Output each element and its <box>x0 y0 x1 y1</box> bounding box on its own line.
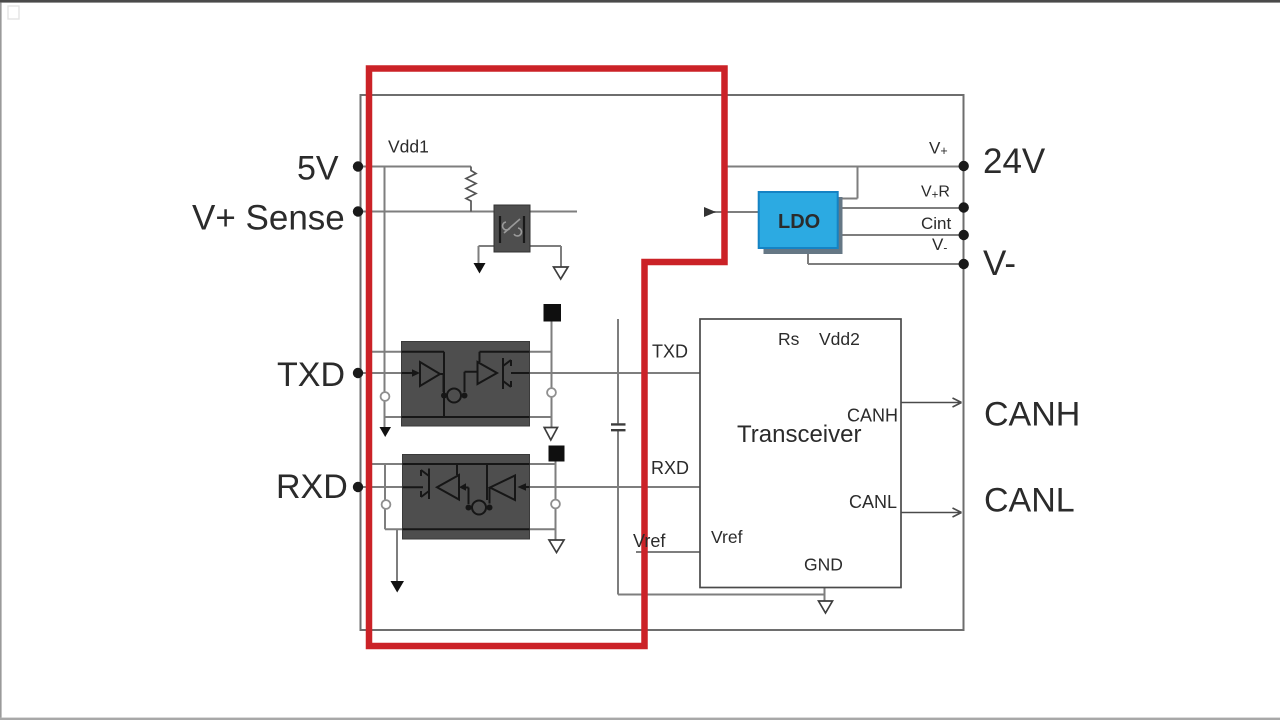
svg-text:TXD: TXD <box>277 356 345 394</box>
svg-text:Vdd2: Vdd2 <box>819 329 860 349</box>
svg-text:CANL: CANL <box>984 482 1075 520</box>
svg-text:V-: V- <box>983 244 1016 283</box>
svg-text:CANL: CANL <box>849 492 897 512</box>
svg-text:RXD: RXD <box>651 458 689 478</box>
svg-text:TXD: TXD <box>652 342 688 362</box>
svg-text:24V: 24V <box>983 142 1046 181</box>
svg-text:GND: GND <box>804 555 843 575</box>
svg-text:CANH: CANH <box>984 396 1080 434</box>
svg-text:Cint: Cint <box>921 214 952 233</box>
svg-text:Rs: Rs <box>778 329 800 349</box>
svg-text:Vdd1: Vdd1 <box>388 137 429 157</box>
svg-text:LDO: LDO <box>778 211 820 233</box>
svg-text:Vref: Vref <box>711 527 743 547</box>
svg-text:RXD: RXD <box>276 468 348 506</box>
svg-text:Vref: Vref <box>633 531 666 551</box>
svg-text:V+ Sense: V+ Sense <box>192 199 345 238</box>
svg-text:5V: 5V <box>297 150 339 188</box>
svg-text:Transceiver: Transceiver <box>737 421 861 448</box>
